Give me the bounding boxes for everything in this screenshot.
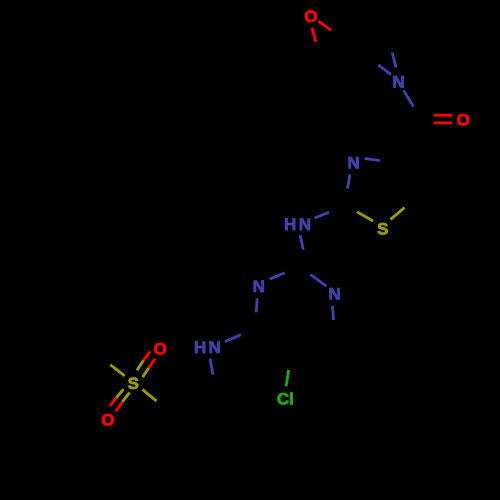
thiazole S upright bond (391, 208, 405, 220)
HN2 upright bond (225, 335, 241, 342)
azetidine N to carbonyl (404, 91, 414, 107)
azetidine N bond upleft (378, 65, 391, 75)
sulfonyl S right C bond (142, 390, 156, 402)
svg-text:O: O (154, 339, 167, 358)
HN1 down to pyrimidine C2 (300, 235, 303, 249)
thiazole N right bond (365, 159, 381, 161)
epoxide O bond b (319, 21, 331, 30)
S=O lower double line1 (116, 389, 123, 398)
azetidine N bond up (392, 53, 396, 68)
pyrimidine C2 to N3 half bond (310, 275, 326, 287)
svg-text:N: N (253, 277, 265, 296)
svg-text:S: S (377, 219, 388, 238)
S=O upper double line2 (143, 368, 149, 377)
thiazole S upleft bond (357, 212, 373, 221)
svg-text:H: H (194, 338, 206, 357)
HN2 down bond (210, 359, 213, 375)
svg-text:O: O (304, 7, 317, 26)
svg-text:O: O (457, 111, 470, 130)
svg-text:O: O (101, 410, 114, 429)
epoxide O bond a (312, 28, 316, 42)
svg-text:S: S (128, 374, 139, 393)
sulfonyl S left C bond (110, 365, 124, 376)
pyrimidine N3 down bond (332, 306, 333, 320)
svg-text:Cl: Cl (277, 389, 294, 408)
S=O lower double line2 (122, 393, 129, 402)
S=O upper double line1 (137, 360, 144, 370)
thiazole N downleft bond (348, 174, 351, 188)
HN1 to thiazole C2 (315, 212, 330, 218)
svg-text:N: N (392, 73, 404, 92)
svg-text:N: N (348, 154, 360, 173)
carbonyl C=O double bond (434, 114, 452, 117)
svg-text:N: N (328, 285, 340, 304)
pyrimidine N1 upright bond (270, 273, 285, 279)
Cl bond (286, 370, 289, 386)
svg-text:N: N (299, 215, 311, 234)
svg-text:N: N (209, 338, 221, 357)
pyrimidine N1 down bond (256, 298, 257, 312)
svg-text:H: H (284, 215, 296, 234)
